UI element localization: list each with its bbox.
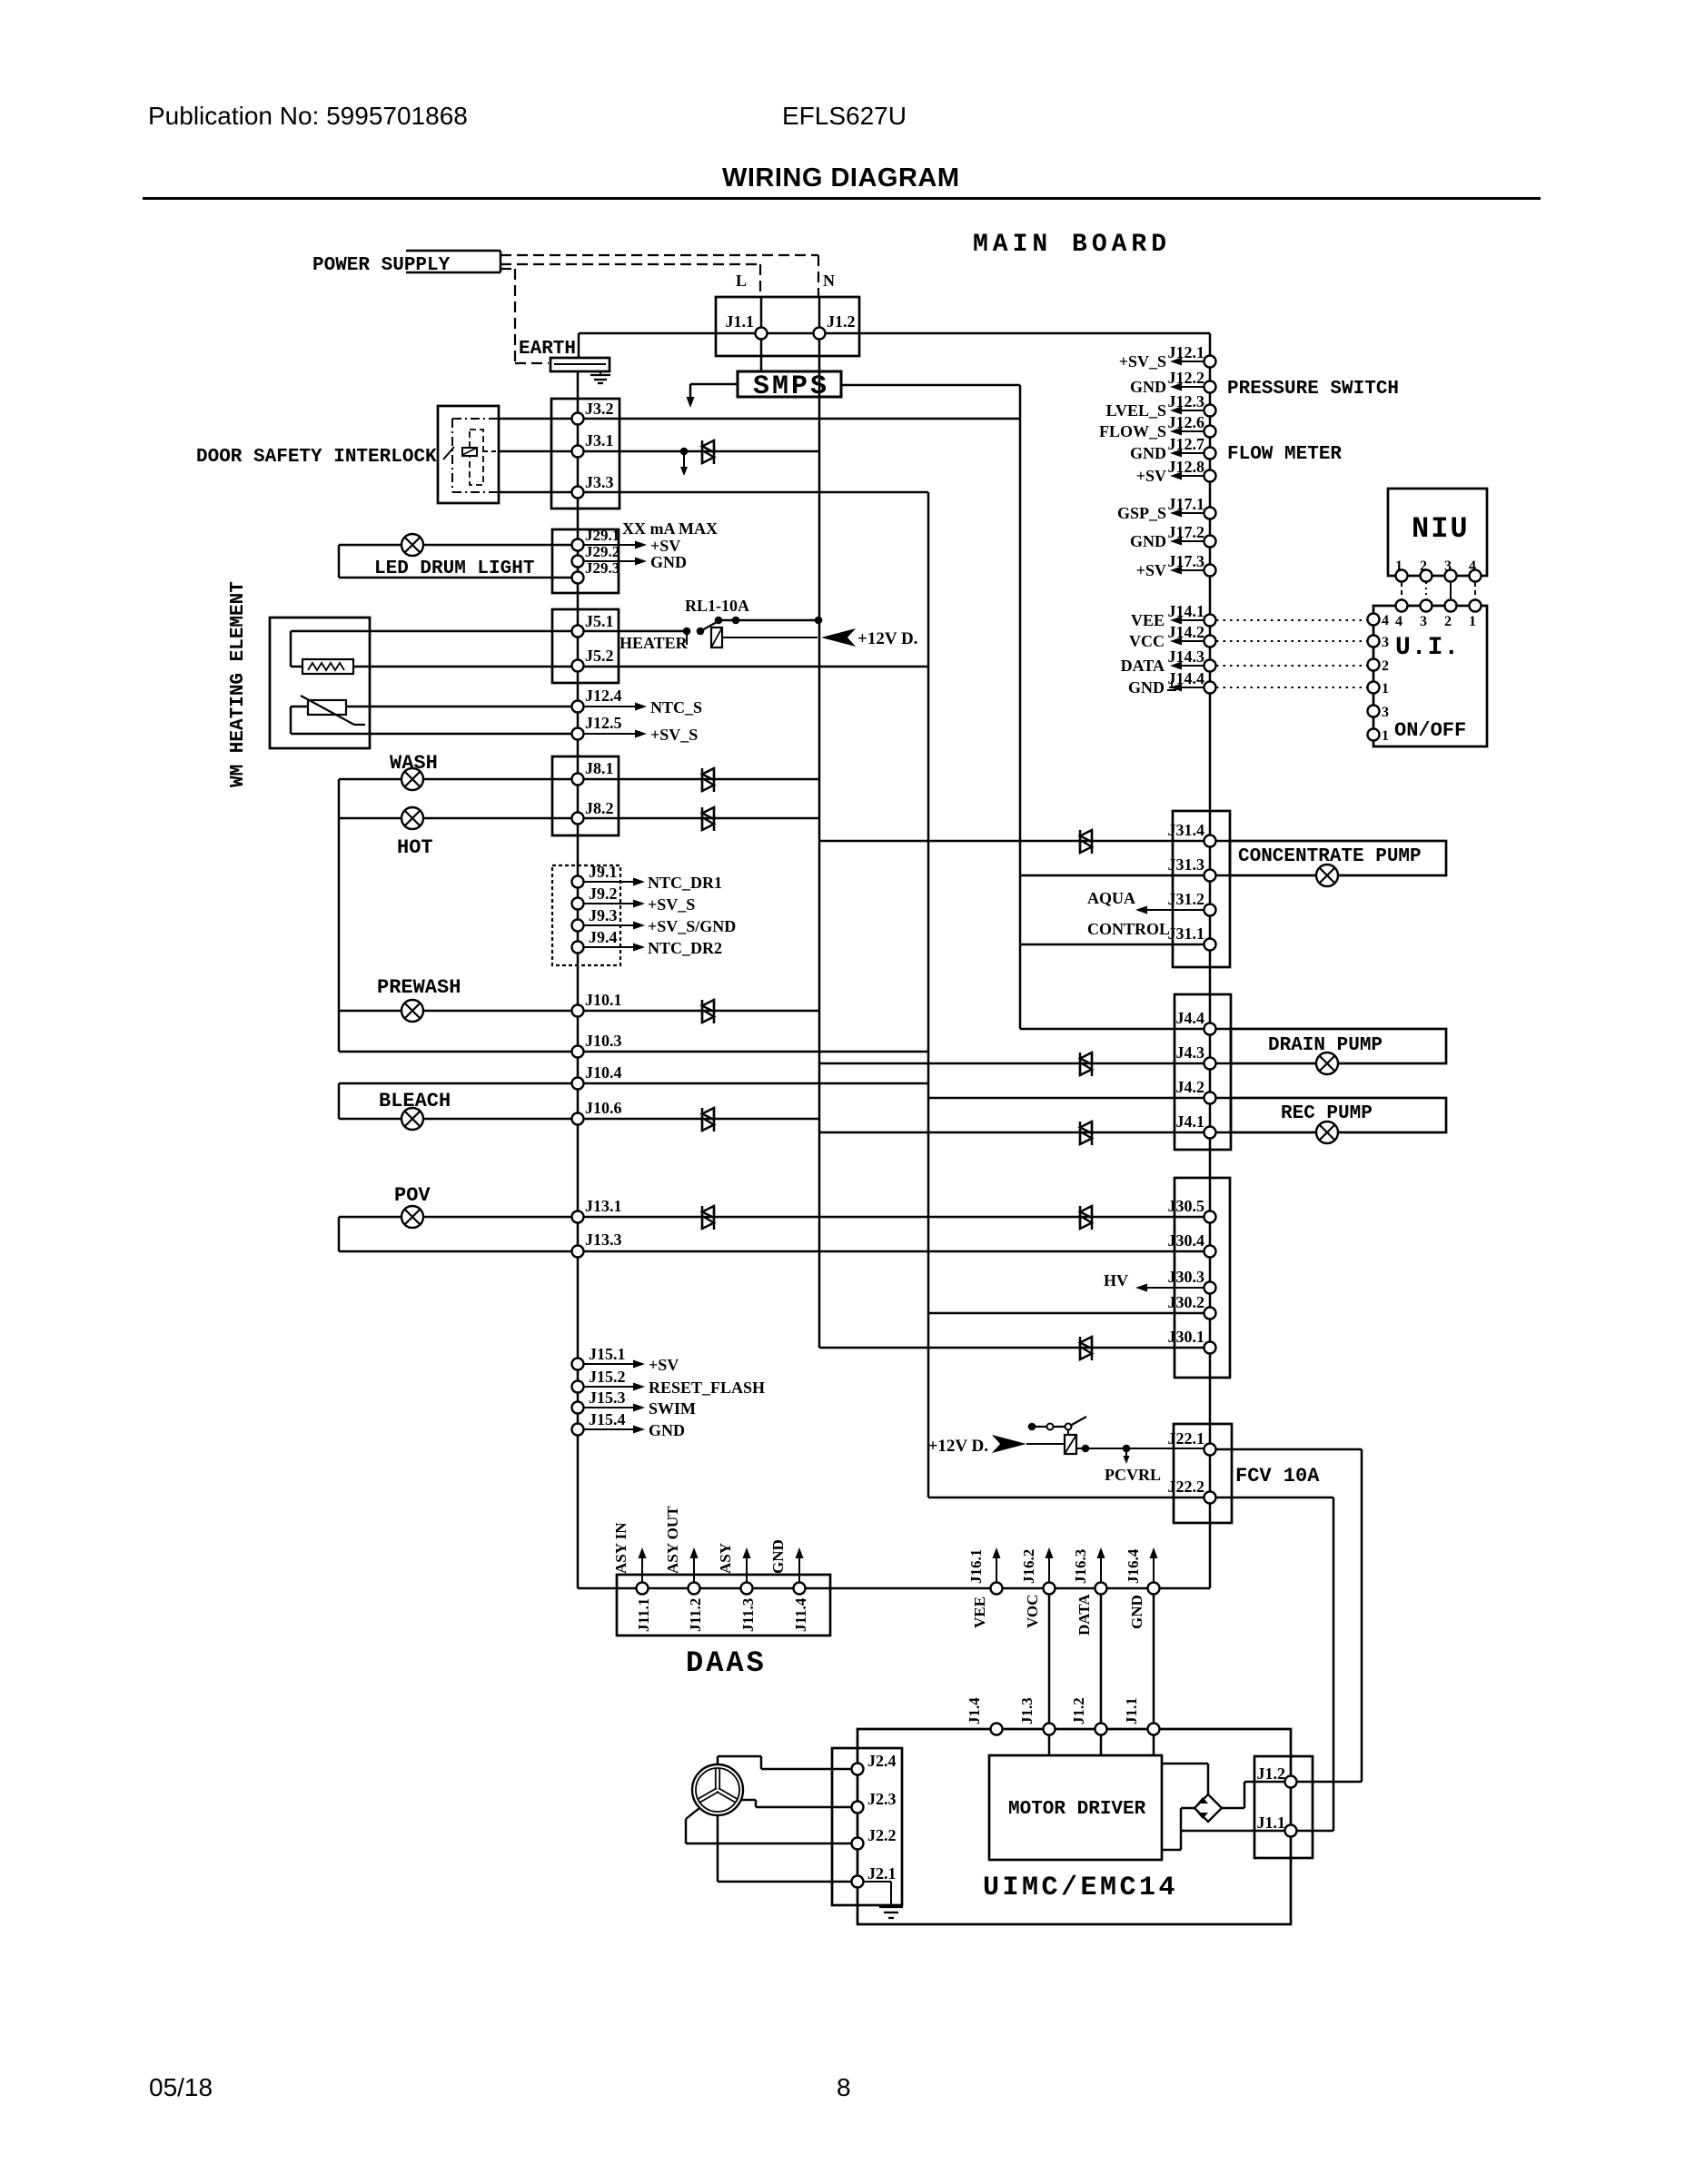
svg-text:LVEL_S: LVEL_S <box>1106 401 1166 420</box>
svg-text:J10.4: J10.4 <box>585 1063 622 1082</box>
svg-text:J16.1: J16.1 <box>967 1549 985 1584</box>
svg-text:05/18: 05/18 <box>149 2073 213 2101</box>
svg-text:GND: GND <box>1128 1595 1145 1629</box>
svg-text:WM HEATING ELEMENT: WM HEATING ELEMENT <box>228 581 249 787</box>
svg-text:J1.2: J1.2 <box>1257 1764 1286 1783</box>
svg-text:J3.1: J3.1 <box>585 431 614 450</box>
svg-text:HOT: HOT <box>397 836 433 859</box>
svg-text:SMPS: SMPS <box>753 371 829 402</box>
svg-text:J15.4: J15.4 <box>589 1410 626 1428</box>
svg-text:Publication No: 5995701868: Publication No: 5995701868 <box>148 102 468 130</box>
svg-text:DATA: DATA <box>1121 657 1165 675</box>
svg-text:FCV 10A: FCV 10A <box>1235 1465 1320 1487</box>
svg-text:RESET_FLASH: RESET_FLASH <box>649 1379 765 1397</box>
svg-text:+SV: +SV <box>1136 561 1166 579</box>
svg-text:+12V D.: +12V D. <box>857 629 917 648</box>
svg-text:J13.3: J13.3 <box>585 1230 622 1249</box>
svg-text:VCC: VCC <box>1129 632 1165 650</box>
svg-text:+SV_S: +SV_S <box>648 895 695 914</box>
svg-text:ASY: ASY <box>717 1543 734 1574</box>
svg-text:J9.2: J9.2 <box>589 884 618 903</box>
svg-text:POV: POV <box>394 1184 431 1207</box>
svg-text:J1.1: J1.1 <box>726 312 755 331</box>
svg-text:J22.2: J22.2 <box>1168 1477 1205 1496</box>
svg-text:J14.4: J14.4 <box>1168 669 1205 687</box>
svg-text:UIMC/EMC14: UIMC/EMC14 <box>983 1873 1178 1903</box>
svg-text:J12.4: J12.4 <box>585 687 622 705</box>
svg-text:J3.3: J3.3 <box>585 473 614 491</box>
svg-text:LED DRUM LIGHT: LED DRUM LIGHT <box>374 558 534 579</box>
svg-text:J29.1: J29.1 <box>585 527 619 544</box>
svg-text:WIRING DIAGRAM: WIRING DIAGRAM <box>722 163 960 193</box>
svg-text:J10.3: J10.3 <box>585 1032 622 1050</box>
svg-text:J11.2: J11.2 <box>687 1598 704 1632</box>
svg-text:J5.1: J5.1 <box>585 612 614 630</box>
svg-text:J1.3: J1.3 <box>1018 1697 1036 1724</box>
svg-text:GND: GND <box>649 1421 685 1439</box>
svg-text:J15.3: J15.3 <box>589 1388 626 1407</box>
svg-text:J1.4: J1.4 <box>966 1697 983 1724</box>
svg-text:J8.1: J8.1 <box>585 759 614 777</box>
svg-text:CONTROL: CONTROL <box>1087 920 1170 938</box>
svg-text:NTC_DR2: NTC_DR2 <box>648 939 722 957</box>
svg-text:GND: GND <box>1130 444 1166 462</box>
svg-text:J31.1: J31.1 <box>1168 924 1205 943</box>
svg-text:GND: GND <box>769 1539 787 1574</box>
svg-text:+12V D.: +12V D. <box>928 1437 988 1456</box>
svg-text:J1.2: J1.2 <box>827 312 856 331</box>
svg-text:SWIM: SWIM <box>649 1399 696 1418</box>
svg-text:2: 2 <box>1382 658 1389 674</box>
svg-text:J12.6: J12.6 <box>1168 413 1205 431</box>
svg-text:DOOR SAFETY INTERLOCK: DOOR SAFETY INTERLOCK <box>196 447 437 468</box>
svg-text:J11.3: J11.3 <box>739 1598 757 1632</box>
svg-text:4: 4 <box>1382 613 1389 628</box>
svg-text:MAIN BOARD: MAIN BOARD <box>973 231 1171 259</box>
svg-text:J5.2: J5.2 <box>585 647 614 665</box>
svg-text:J11.1: J11.1 <box>635 1598 652 1632</box>
svg-text:3: 3 <box>1382 705 1389 720</box>
svg-text:J9.1: J9.1 <box>589 863 618 881</box>
svg-text:1: 1 <box>1382 681 1389 697</box>
svg-text:J12.1: J12.1 <box>1168 343 1205 361</box>
svg-text:J17.2: J17.2 <box>1168 523 1205 541</box>
svg-text:J10.1: J10.1 <box>585 991 622 1009</box>
svg-text:J2.2: J2.2 <box>867 1826 897 1844</box>
svg-text:J9.4: J9.4 <box>589 928 618 946</box>
svg-text:AQUA: AQUA <box>1087 889 1135 907</box>
svg-text:XX mA MAX: XX mA MAX <box>622 519 718 538</box>
svg-text:+SV_S: +SV_S <box>650 726 698 744</box>
svg-text:2: 2 <box>1444 614 1452 629</box>
svg-text:ASY OUT: ASY OUT <box>664 1506 681 1574</box>
svg-text:DAAS: DAAS <box>686 1646 767 1680</box>
svg-text:J13.1: J13.1 <box>585 1197 622 1215</box>
svg-text:J4.2: J4.2 <box>1176 1078 1205 1096</box>
svg-text:J11.4: J11.4 <box>792 1597 809 1632</box>
svg-text:J30.5: J30.5 <box>1168 1197 1205 1215</box>
svg-text:J30.4: J30.4 <box>1168 1231 1205 1250</box>
svg-text:FLOW_S: FLOW_S <box>1099 422 1166 440</box>
svg-text:J29.2: J29.2 <box>585 543 619 560</box>
svg-text:J2.4: J2.4 <box>867 1752 897 1770</box>
svg-text:4: 4 <box>1395 614 1403 629</box>
svg-text:VEE: VEE <box>971 1596 988 1628</box>
svg-text:ASY IN: ASY IN <box>612 1522 629 1574</box>
svg-text:J2.3: J2.3 <box>867 1790 897 1808</box>
svg-text:J8.2: J8.2 <box>585 799 614 817</box>
svg-text:J17.1: J17.1 <box>1168 495 1205 513</box>
svg-text:+SV: +SV <box>1136 467 1166 485</box>
svg-text:J1.2: J1.2 <box>1070 1697 1087 1724</box>
svg-text:PCVRL: PCVRL <box>1105 1466 1161 1484</box>
svg-text:J12.8: J12.8 <box>1168 458 1205 476</box>
svg-text:J2.1: J2.1 <box>867 1864 897 1883</box>
svg-text:J15.2: J15.2 <box>589 1368 626 1386</box>
svg-text:J16.4: J16.4 <box>1125 1548 1142 1584</box>
svg-text:GND: GND <box>1128 678 1165 697</box>
svg-text:J29.3: J29.3 <box>585 559 619 577</box>
svg-text:PRESSURE SWITCH: PRESSURE SWITCH <box>1227 379 1399 400</box>
svg-text:J12.7: J12.7 <box>1168 435 1205 453</box>
svg-text:VEE: VEE <box>1131 611 1165 629</box>
svg-text:J12.3: J12.3 <box>1168 392 1205 410</box>
svg-text:VOC: VOC <box>1024 1595 1041 1628</box>
svg-text:GND: GND <box>1130 378 1166 396</box>
svg-text:N: N <box>823 272 835 290</box>
svg-text:J16.2: J16.2 <box>1020 1549 1037 1584</box>
svg-text:NIU: NIU <box>1412 512 1470 546</box>
svg-text:+SV_S/GND: +SV_S/GND <box>648 917 736 935</box>
svg-text:+SV: +SV <box>649 1356 679 1374</box>
svg-text:J9.3: J9.3 <box>589 906 618 924</box>
svg-text:FLOW METER: FLOW METER <box>1227 444 1342 465</box>
svg-text:J12.2: J12.2 <box>1168 369 1205 387</box>
svg-text:EARTH: EARTH <box>519 339 576 360</box>
svg-text:GND: GND <box>1130 532 1166 550</box>
svg-text:J31.2: J31.2 <box>1168 890 1205 908</box>
svg-text:J15.1: J15.1 <box>589 1345 626 1363</box>
svg-text:RL1-10A: RL1-10A <box>685 597 749 615</box>
svg-text:J3.2: J3.2 <box>585 400 614 418</box>
svg-text:8: 8 <box>837 2073 851 2101</box>
svg-text:MOTOR DRIVER: MOTOR DRIVER <box>1008 1799 1146 1820</box>
svg-text:J10.6: J10.6 <box>585 1099 622 1117</box>
svg-text:+SV: +SV <box>650 537 680 555</box>
svg-text:GND: GND <box>650 553 687 571</box>
svg-text:EFLS627U: EFLS627U <box>782 102 907 130</box>
svg-text:ON/OFF: ON/OFF <box>1394 719 1466 742</box>
svg-text:J22.1: J22.1 <box>1168 1429 1205 1448</box>
svg-text:J30.1: J30.1 <box>1168 1328 1205 1346</box>
svg-text:1: 1 <box>1469 614 1476 629</box>
svg-text:GSP_S: GSP_S <box>1117 504 1166 522</box>
svg-text:L: L <box>736 272 747 290</box>
svg-text:J14.3: J14.3 <box>1168 647 1205 666</box>
svg-text:J31.4: J31.4 <box>1168 821 1205 839</box>
svg-text:J31.3: J31.3 <box>1168 855 1205 874</box>
svg-text:1: 1 <box>1382 728 1389 744</box>
svg-text:DATA: DATA <box>1075 1594 1093 1636</box>
svg-text:J1.1: J1.1 <box>1123 1697 1140 1724</box>
svg-text:HEATER: HEATER <box>619 634 689 652</box>
svg-text:J30.3: J30.3 <box>1168 1268 1205 1286</box>
svg-text:J17.3: J17.3 <box>1168 552 1205 570</box>
svg-text:J1.1: J1.1 <box>1257 1813 1286 1832</box>
svg-text:PREWASH: PREWASH <box>377 976 461 999</box>
svg-text:3: 3 <box>1382 635 1389 650</box>
svg-text:U.I.: U.I. <box>1395 634 1460 662</box>
svg-text:J4.3: J4.3 <box>1176 1043 1205 1062</box>
svg-text:J12.5: J12.5 <box>585 714 622 732</box>
svg-text:J16.3: J16.3 <box>1072 1549 1089 1584</box>
svg-text:J30.2: J30.2 <box>1168 1293 1205 1311</box>
svg-text:NTC_DR1: NTC_DR1 <box>648 874 722 892</box>
svg-text:J14.2: J14.2 <box>1168 623 1205 641</box>
svg-text:J4.4: J4.4 <box>1176 1009 1205 1027</box>
svg-text:+SV_S: +SV_S <box>1119 352 1166 371</box>
svg-text:HV: HV <box>1104 1271 1128 1290</box>
svg-text:J4.1: J4.1 <box>1176 1112 1205 1131</box>
svg-text:3: 3 <box>1420 614 1427 629</box>
svg-text:NTC_S: NTC_S <box>650 698 702 716</box>
svg-text:J14.1: J14.1 <box>1168 602 1205 620</box>
